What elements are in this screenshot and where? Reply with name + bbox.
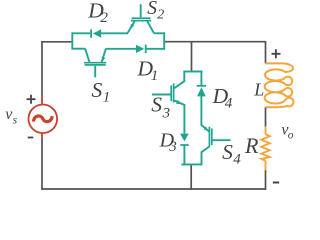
svg-text:o: o	[288, 130, 294, 142]
svg-text:1: 1	[151, 68, 159, 84]
resistor R: zigzag	[261, 134, 269, 160]
AC source vs: circle	[29, 105, 58, 134]
wire: S3 emitter to D3	[183, 104, 185, 134]
label + (source)	[27, 95, 36, 104]
svg-text:4: 4	[225, 96, 233, 112]
wire mid horizontal right	[165, 41, 266, 43]
switch S3: collector lead from top bar	[174, 71, 184, 89]
switch S1: body bar	[84, 62, 106, 64]
label - (output)	[273, 182, 279, 184]
svg-text:2: 2	[100, 10, 108, 26]
switch S2: gate bar	[132, 17, 151, 19]
diode D2: cathode bar	[90, 29, 92, 38]
wire bottom branch: S1 to D1	[106, 48, 137, 50]
svg-text:s: s	[13, 115, 18, 127]
switch S2: body bar	[131, 20, 151, 22]
diode D1: cathode bar	[145, 45, 147, 54]
diode D3: triangle (pointing down)	[180, 134, 189, 142]
switch S4: body bar	[208, 127, 210, 147]
svg-text:4: 4	[233, 152, 241, 168]
diode D2: triangle (pointing left)	[93, 29, 101, 37]
switch S1: left leg	[85, 49, 89, 62]
switch S4: collector leg	[201, 125, 209, 132]
wire right vertical between L and R	[265, 107, 267, 127]
switch S2: emitter arrow	[130, 24, 134, 29]
wire top branch: S2 to right joint	[154, 32, 165, 34]
AC source vs: lead above	[41, 95, 43, 104]
svg-text:R: R	[244, 133, 259, 158]
diode D1: triangle (pointing right)	[136, 45, 144, 53]
label - (source)	[28, 137, 34, 139]
svg-text:3: 3	[162, 105, 171, 121]
node: left joint of bidirectional switch	[71, 32, 73, 49]
switch S1: gate bar	[85, 64, 106, 66]
svg-text:1: 1	[103, 90, 111, 106]
resistor R: bottom stub	[265, 161, 267, 171]
switch S3: emitter leg	[174, 100, 184, 105]
wire left vertical lower	[41, 139, 43, 190]
resistor R: top stub	[265, 126, 267, 134]
switch S2: right leg	[147, 21, 154, 33]
wire top-left horizontal	[41, 41, 71, 43]
diode D4: cathode bar	[197, 85, 207, 87]
svg-text:S: S	[222, 140, 233, 164]
svg-text:S: S	[151, 93, 162, 117]
svg-text:L: L	[253, 80, 264, 100]
switch S4: collector arrow	[204, 127, 209, 132]
svg-text:2: 2	[157, 8, 164, 23]
wire bottom horizontal	[41, 188, 266, 190]
switch S3: body bar	[173, 83, 175, 102]
node: right joint of bidirectional switch	[163, 32, 165, 49]
wire middle branch top gray	[191, 42, 193, 71]
switch S1: emitter arrow	[102, 57, 106, 62]
switch S3: gate bar	[170, 85, 172, 101]
diode D4: lead from top bar	[200, 71, 202, 85]
switch S2: left leg (emitter)	[128, 21, 135, 33]
wire bottom branch: left joint to S1	[72, 48, 86, 50]
wire top branch: left segment to D2	[72, 32, 91, 34]
AC source vs: sine wave	[33, 116, 52, 122]
switch S4: gate lead	[212, 139, 231, 141]
switch S4: emitter leg	[202, 147, 210, 166]
svg-text:S: S	[147, 0, 157, 19]
inductor L: coil (3 cursive loops)	[265, 63, 294, 107]
label + (output)	[272, 49, 281, 58]
wire bottom branch: D1 to right joint	[146, 48, 165, 50]
switch S3: gate lead	[152, 94, 171, 96]
wire left vertical upper	[41, 41, 43, 96]
wire middle branch bottom gray	[190, 165, 192, 190]
svg-text:3: 3	[168, 139, 177, 155]
svg-text:S: S	[92, 78, 103, 102]
diode D4: triangle (pointing up)	[197, 87, 206, 96]
switch S3: emitter arrow	[176, 100, 182, 104]
node: middle block bottom bar	[181, 163, 202, 165]
switch S4: gate bar	[211, 128, 213, 145]
switch S1: gate lead	[94, 66, 96, 78]
switch S2: gate lead	[140, 4, 142, 17]
diode D3: cathode bar	[180, 144, 188, 146]
AC source vs: lead below	[41, 133, 43, 140]
wire: D4 to S4	[200, 96, 202, 126]
node: middle block top bar	[183, 71, 202, 73]
wire right vertical top	[265, 42, 267, 64]
wire top branch: D2 to S2	[101, 32, 128, 34]
wire: D3 to bottom bar	[183, 145, 185, 165]
switch S1: right leg (emitter)	[102, 49, 106, 62]
wire right vertical below R	[265, 170, 267, 190]
